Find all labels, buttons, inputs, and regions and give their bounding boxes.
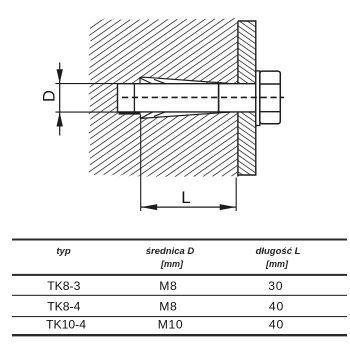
washer — [256, 71, 260, 126]
sleeve end line — [218, 84, 220, 112]
svg-text:40: 40 — [269, 317, 284, 331]
svg-text:L: L — [181, 188, 190, 207]
dimension D extension line bottom — [56, 111, 118, 113]
plate outline — [238, 21, 256, 175]
svg-text:długość L: długość L — [256, 246, 301, 257]
svg-text:D: D — [41, 90, 59, 102]
svg-text:M8: M8 — [159, 300, 177, 314]
top slit diagonal 1 — [141, 78, 152, 84]
bottom slit diagonal 2 — [154, 112, 166, 116]
cone left end — [117, 83, 119, 112]
table bottom border — [12, 334, 347, 336]
cone/sleeve joint — [133, 84, 135, 112]
bottom expansion flare outline — [141, 112, 229, 118]
svg-text:M10: M10 — [158, 317, 184, 331]
dimension D arrow top — [57, 69, 63, 83]
hex head chamfer line bottom — [260, 111, 281, 113]
svg-text:M8: M8 — [159, 279, 177, 293]
dimension L extension line left — [140, 119, 142, 211]
anchor sleeve top edge — [118, 83, 256, 85]
dimension L arrow left — [141, 204, 157, 210]
table top border — [12, 239, 347, 241]
bottom sleeve folded tab (thick bar) — [119, 112, 141, 115]
dimension D line — [59, 63, 61, 136]
svg-text:TK8-4: TK8-4 — [47, 300, 80, 314]
svg-text:30: 30 — [268, 279, 283, 293]
svg-text:średnica D: średnica D — [146, 246, 195, 257]
bottom slit diagonal 1 — [141, 112, 153, 118]
centerline — [122, 96, 284, 98]
hex bolt head — [260, 71, 281, 124]
plate cross-section hatch — [238, 21, 256, 175]
dimension D extension line top — [56, 83, 118, 85]
wall face line (above hole) — [237, 21, 239, 83]
table row separator 2 — [12, 316, 347, 317]
svg-text:40: 40 — [269, 300, 284, 314]
dimension L line — [141, 206, 236, 208]
wall cross-section hatch — [89, 18, 238, 177]
hex head chamfer line top — [260, 83, 281, 85]
table header separator — [12, 274, 347, 276]
svg-text:[mm]: [mm] — [160, 259, 184, 269]
wall face line (below hole) — [237, 112, 239, 177]
dimension D arrow bottom — [57, 112, 63, 126]
dimension L arrow right — [220, 204, 236, 210]
dimension L extension line right — [235, 178, 237, 212]
svg-text:typ: typ — [56, 246, 70, 257]
top slit diagonal 2 — [154, 79, 166, 83]
top expansion flare outline — [140, 77, 229, 84]
svg-text:TK10-4: TK10-4 — [46, 317, 86, 331]
table row separator 1 — [12, 295, 347, 296]
svg-text:TK8-3: TK8-3 — [47, 279, 80, 293]
svg-text:[mm]: [mm] — [265, 259, 289, 269]
anchor sleeve bottom edge — [118, 111, 256, 113]
